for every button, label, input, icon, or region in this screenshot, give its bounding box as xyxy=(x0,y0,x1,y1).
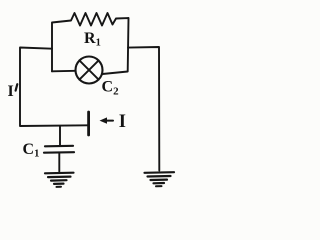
svg-text:C1: C1 xyxy=(23,141,40,160)
svg-text:I: I xyxy=(119,112,126,132)
svg-text:C2: C2 xyxy=(102,79,120,98)
svg-text:R1: R1 xyxy=(84,30,101,49)
svg-text:I: I xyxy=(8,83,14,100)
